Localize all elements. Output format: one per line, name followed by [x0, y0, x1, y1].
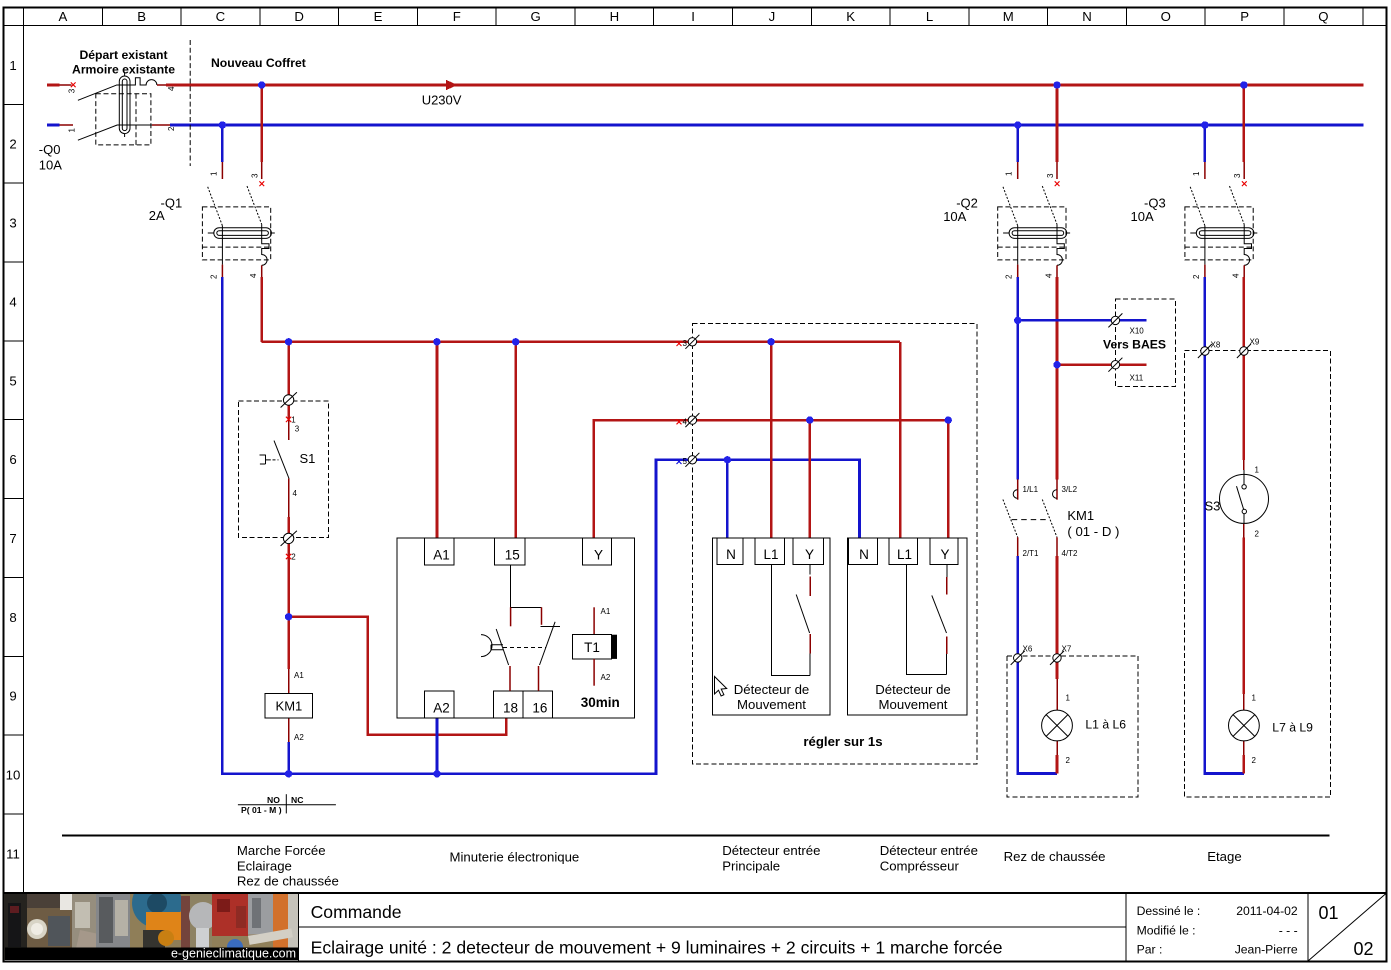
svg-text:P( 01 - M ): P( 01 - M ) — [241, 805, 282, 815]
svg-text:L1 à L6: L1 à L6 — [1085, 718, 1126, 732]
svg-text:Mouvement: Mouvement — [879, 697, 948, 712]
svg-text:Par :: Par : — [1137, 943, 1163, 957]
svg-text:2: 2 — [209, 274, 218, 279]
svg-text:1: 1 — [1255, 466, 1260, 475]
svg-text:A2: A2 — [601, 673, 611, 682]
svg-text:X8: X8 — [1211, 341, 1221, 350]
svg-text:Modifié le :: Modifié le : — [1137, 924, 1196, 938]
svg-text:4: 4 — [683, 417, 688, 426]
svg-text:3: 3 — [1046, 173, 1055, 178]
svg-text:1: 1 — [209, 171, 218, 176]
svg-text:1: 1 — [1252, 694, 1257, 703]
svg-text:M: M — [1003, 9, 1014, 24]
svg-text:1/L1: 1/L1 — [1023, 485, 1039, 494]
svg-text:Dessiné le :: Dessiné le : — [1137, 904, 1201, 918]
svg-text:Détecteur de: Détecteur de — [875, 682, 951, 697]
svg-text:L: L — [926, 9, 933, 24]
svg-text:15: 15 — [505, 548, 520, 563]
svg-text:B: B — [137, 9, 146, 24]
svg-text:N: N — [1082, 9, 1092, 24]
svg-text:18: 18 — [503, 700, 518, 715]
svg-text:E: E — [374, 9, 383, 24]
svg-text:T1: T1 — [584, 640, 600, 655]
svg-text:30min: 30min — [581, 695, 620, 710]
svg-text:3: 3 — [683, 339, 688, 348]
svg-text:1: 1 — [67, 128, 76, 133]
svg-text:3: 3 — [251, 173, 260, 178]
svg-text:U230V: U230V — [422, 93, 462, 108]
svg-text:10: 10 — [6, 768, 21, 783]
svg-text:G: G — [530, 9, 540, 24]
svg-text:2A: 2A — [149, 208, 165, 223]
svg-text:4: 4 — [1232, 273, 1241, 278]
svg-text:10A: 10A — [943, 209, 966, 224]
svg-text:L1: L1 — [763, 547, 778, 562]
svg-text:4: 4 — [293, 489, 298, 498]
svg-text:3: 3 — [9, 216, 16, 231]
svg-text:2: 2 — [291, 553, 296, 562]
svg-text:Principale: Principale — [722, 859, 780, 874]
svg-text:L7 à L9: L7 à L9 — [1272, 721, 1313, 735]
svg-text:10A: 10A — [1131, 209, 1154, 224]
svg-text:X11: X11 — [1130, 374, 1144, 383]
svg-text:NO: NO — [267, 795, 280, 805]
svg-text:KM1: KM1 — [276, 699, 303, 714]
svg-text:Rez de chaussée: Rez de chaussée — [1004, 849, 1106, 864]
svg-text:-Q0: -Q0 — [39, 142, 61, 157]
svg-text:2/T1: 2/T1 — [1023, 549, 1040, 558]
svg-text:X7: X7 — [1062, 645, 1072, 654]
svg-text:J: J — [769, 9, 776, 24]
svg-text:2: 2 — [167, 126, 176, 131]
svg-text:Eclairage: Eclairage — [237, 859, 292, 874]
svg-text:Y: Y — [940, 547, 949, 562]
svg-text:Eclairage unité : 2 detecteur: Eclairage unité : 2 detecteur de mouveme… — [311, 938, 1003, 958]
svg-text:01: 01 — [1319, 903, 1339, 923]
svg-text:Départ existant: Départ existant — [79, 48, 167, 62]
svg-text:S1: S1 — [300, 451, 316, 466]
svg-text:O: O — [1161, 9, 1171, 24]
svg-text:( 01 - D ): ( 01 - D ) — [1067, 524, 1119, 539]
svg-text:N: N — [859, 547, 869, 562]
svg-text:Détecteur entrée: Détecteur entrée — [722, 843, 820, 858]
svg-text:16: 16 — [532, 700, 547, 715]
svg-text:10A: 10A — [39, 158, 62, 173]
svg-text:D: D — [294, 9, 304, 24]
svg-text:Q: Q — [1318, 9, 1328, 24]
svg-text:9: 9 — [9, 689, 16, 704]
svg-text:X10: X10 — [1130, 327, 1145, 336]
svg-text:Etage: Etage — [1207, 849, 1241, 864]
svg-text:Détecteur entrée: Détecteur entrée — [880, 843, 978, 858]
svg-text:A1: A1 — [433, 548, 450, 563]
svg-text:I: I — [691, 9, 695, 24]
svg-text:N: N — [726, 547, 736, 562]
svg-text:Commande: Commande — [311, 902, 402, 922]
svg-text:C: C — [216, 9, 226, 24]
svg-text:11: 11 — [6, 846, 20, 861]
svg-text:02: 02 — [1354, 939, 1374, 959]
svg-text:F: F — [453, 9, 461, 24]
svg-text:7: 7 — [9, 531, 16, 546]
svg-text:régler sur 1s: régler sur 1s — [803, 734, 882, 749]
svg-text:Y: Y — [594, 548, 603, 563]
svg-text:Minuterie électronique: Minuterie électronique — [450, 850, 580, 865]
svg-text:2: 2 — [1005, 274, 1014, 279]
svg-text:3: 3 — [295, 425, 300, 434]
svg-text:Armoire existante: Armoire existante — [72, 63, 175, 77]
svg-text:2011-04-02: 2011-04-02 — [1236, 904, 1298, 918]
svg-text:Comprésseur: Comprésseur — [880, 859, 960, 874]
svg-text:A1: A1 — [294, 671, 304, 680]
svg-text:4: 4 — [167, 86, 176, 91]
svg-text:1: 1 — [1192, 171, 1201, 176]
svg-text:5: 5 — [683, 457, 688, 466]
svg-text:Mouvement: Mouvement — [737, 697, 806, 712]
svg-text:Jean-Pierre: Jean-Pierre — [1235, 943, 1298, 957]
svg-text:2: 2 — [1252, 756, 1257, 765]
svg-text:KM1: KM1 — [1067, 508, 1094, 523]
svg-text:1: 1 — [1005, 171, 1014, 176]
svg-text:e-genieclimatique.com: e-genieclimatique.com — [171, 947, 296, 961]
svg-text:2: 2 — [1192, 274, 1201, 279]
svg-text:P: P — [1240, 9, 1249, 24]
svg-text:A: A — [59, 9, 68, 24]
svg-text:4: 4 — [249, 273, 258, 278]
svg-text:3/L2: 3/L2 — [1062, 485, 1078, 494]
svg-text:1: 1 — [291, 416, 296, 425]
svg-text:2: 2 — [1255, 530, 1260, 539]
svg-text:K: K — [846, 9, 855, 24]
svg-text:4/T2: 4/T2 — [1062, 549, 1079, 558]
svg-text:6: 6 — [9, 452, 16, 467]
svg-text:5: 5 — [9, 373, 16, 388]
svg-text:Nouveau Coffret: Nouveau Coffret — [211, 56, 306, 70]
svg-text:3: 3 — [67, 88, 76, 93]
svg-text:Rez de chaussée: Rez de chaussée — [237, 874, 339, 889]
svg-text:1: 1 — [1066, 694, 1071, 703]
svg-text:4: 4 — [9, 294, 16, 309]
svg-text:Marche Forcée: Marche Forcée — [237, 843, 326, 858]
svg-text:Détecteur de: Détecteur de — [734, 682, 810, 697]
svg-text:3: 3 — [1233, 173, 1242, 178]
svg-text:L1: L1 — [897, 547, 912, 562]
svg-text:X9: X9 — [1250, 338, 1260, 347]
svg-text:X6: X6 — [1023, 645, 1033, 654]
svg-text:S3: S3 — [1205, 499, 1221, 514]
svg-text:8: 8 — [9, 610, 16, 625]
svg-text:4: 4 — [1044, 273, 1053, 278]
svg-text:2: 2 — [1066, 756, 1071, 765]
svg-text:H: H — [610, 9, 620, 24]
svg-text:- - -: - - - — [1279, 924, 1298, 938]
svg-text:A1: A1 — [601, 607, 611, 616]
svg-text:2: 2 — [9, 137, 16, 152]
svg-text:NC: NC — [291, 795, 303, 805]
svg-text:A2: A2 — [433, 700, 450, 715]
svg-text:1: 1 — [9, 58, 16, 73]
svg-text:A2: A2 — [294, 733, 304, 742]
svg-text:Vers BAES: Vers BAES — [1103, 338, 1166, 352]
svg-text:Y: Y — [805, 547, 814, 562]
